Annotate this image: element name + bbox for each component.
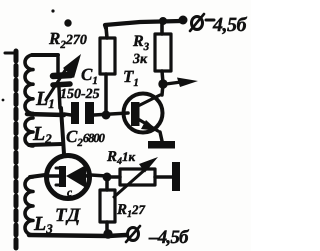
capacitor C2 [64, 102, 128, 124]
svg-text:4,5б: 4,5б [212, 14, 248, 36]
svg-text:ТД: ТД [55, 205, 81, 226]
wire bottom rail [29, 235, 126, 236]
svg-text:R3: R3 [132, 33, 150, 53]
battery terminal bottom -4.5V [126, 226, 140, 242]
wire tank vertical [61, 108, 64, 154]
svg-text:Т1: Т1 [123, 67, 139, 89]
label R2 270 [48, 19, 87, 51]
output arrow [166, 78, 198, 88]
svg-text:L3: L3 [33, 213, 53, 236]
ground (chassis) emitter [148, 141, 175, 149]
svg-text:C1: C1 [81, 65, 98, 87]
capacitor C1 (trimmer) [46, 54, 81, 108]
node collector junction [158, 79, 167, 88]
node bottom junction [103, 229, 112, 238]
inductor L2 [25, 118, 33, 146]
inductor L3 [25, 177, 33, 235]
resistor R2 [100, 27, 115, 114]
resistor R1 [100, 181, 115, 234]
inductor L1 [25, 55, 33, 113]
wire diode left to L3 [30, 175, 45, 177]
resistor R4 (variable) [110, 157, 172, 197]
wire L2 bottom [29, 144, 62, 145]
wire top rail [105, 21, 181, 28]
wire diode right [91, 175, 106, 176]
node base junction [102, 111, 111, 120]
svg-text:R2270: R2270 [48, 29, 87, 51]
node R4-R1 junction [103, 173, 112, 182]
svg-text:R127: R127 [116, 202, 146, 220]
wire L1-L2 divider [27, 114, 64, 115]
svg-text:–4,5б: –4,5б [148, 227, 190, 248]
node rail-R3 [159, 17, 167, 25]
svg-text:150-25: 150-25 [60, 87, 100, 102]
tunnel diode VD [47, 156, 91, 200]
svg-text:C26800: C26800 [66, 127, 106, 149]
wire L1 top [32, 53, 58, 57]
shield dashed line [5, 51, 16, 248]
node rail end [179, 16, 188, 25]
paper speck [51, 9, 54, 12]
svg-text:с: с [67, 187, 72, 199]
svg-text:3к: 3к [132, 52, 148, 67]
svg-text:R41к: R41к [106, 149, 136, 167]
output jack terminal [172, 162, 180, 191]
paper speck [2, 99, 5, 102]
battery terminal top -4.5V [190, 14, 214, 31]
transistor T1 [124, 84, 164, 141]
resistor R3 [155, 21, 171, 83]
